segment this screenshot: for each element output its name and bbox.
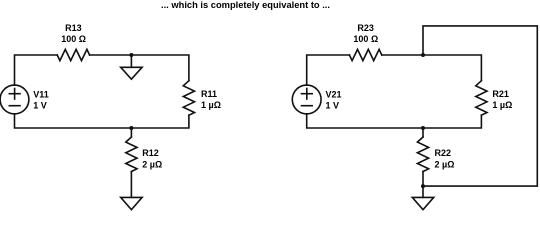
wire: top wire right segment (R13 to R11 top) bbox=[90, 55, 189, 81]
wire: top wire left segment (V11 top to R13) bbox=[15, 55, 58, 85]
svg-text:1 V: 1 V bbox=[33, 101, 47, 111]
wire: top wire right segment (R23 to R21 top) bbox=[382, 55, 482, 81]
resistor R13 bbox=[57, 49, 89, 60]
wire: feedback loop (node A to ground node) bbox=[423, 26, 537, 186]
wire: R12 top lead bbox=[130, 128, 132, 137]
resistor R22 bbox=[417, 137, 428, 172]
svg-text:R21: R21 bbox=[492, 89, 509, 99]
ground (top, left circuit) bbox=[130, 55, 132, 67]
wire: R12 bottom lead bbox=[130, 172, 132, 198]
voltage source V21 bbox=[292, 85, 321, 114]
svg-text:... which is completely equiva: ... which is completely equivalent to ..… bbox=[161, 0, 330, 10]
node: top junction left circuit bbox=[129, 53, 133, 57]
resistor R23 bbox=[349, 49, 381, 60]
wire: R22 top lead bbox=[422, 128, 424, 137]
voltage source V11 bbox=[0, 85, 29, 114]
svg-text:2 µΩ: 2 µΩ bbox=[142, 160, 162, 170]
node: ground junction right circuit bbox=[421, 184, 425, 188]
svg-text:V21: V21 bbox=[326, 90, 342, 100]
wire: right wire bottom lead + bottom wire bbox=[307, 114, 482, 128]
svg-text:R12: R12 bbox=[142, 148, 159, 158]
node: bottom junction right circuit bbox=[421, 126, 425, 130]
ground (bottom, left circuit) bbox=[121, 197, 142, 209]
svg-text:1 µΩ: 1 µΩ bbox=[492, 100, 512, 110]
svg-text:2 µΩ: 2 µΩ bbox=[435, 160, 455, 170]
node A: top junction right circuit bbox=[421, 53, 425, 57]
resistor R11 bbox=[183, 81, 194, 116]
svg-text:R13: R13 bbox=[65, 23, 82, 33]
svg-text:R22: R22 bbox=[435, 148, 452, 158]
svg-text:100 Ω: 100 Ω bbox=[61, 34, 86, 44]
svg-text:1 V: 1 V bbox=[326, 101, 340, 111]
wire: right wire bottom lead + bottom wire bbox=[15, 114, 189, 128]
svg-text:100 Ω: 100 Ω bbox=[353, 34, 378, 44]
resistor R12 bbox=[126, 137, 137, 172]
wire: top wire left segment (V21 top to R23) bbox=[307, 55, 350, 85]
resistor R21 bbox=[476, 81, 487, 116]
svg-text:R23: R23 bbox=[357, 23, 374, 33]
wire: R22 bottom lead to ground bbox=[422, 172, 424, 198]
svg-text:1 µΩ: 1 µΩ bbox=[201, 100, 221, 110]
svg-text:V11: V11 bbox=[33, 90, 49, 100]
ground (bottom, right circuit) bbox=[412, 197, 433, 209]
node: bottom junction left circuit bbox=[129, 126, 133, 130]
svg-text:R11: R11 bbox=[201, 89, 217, 99]
